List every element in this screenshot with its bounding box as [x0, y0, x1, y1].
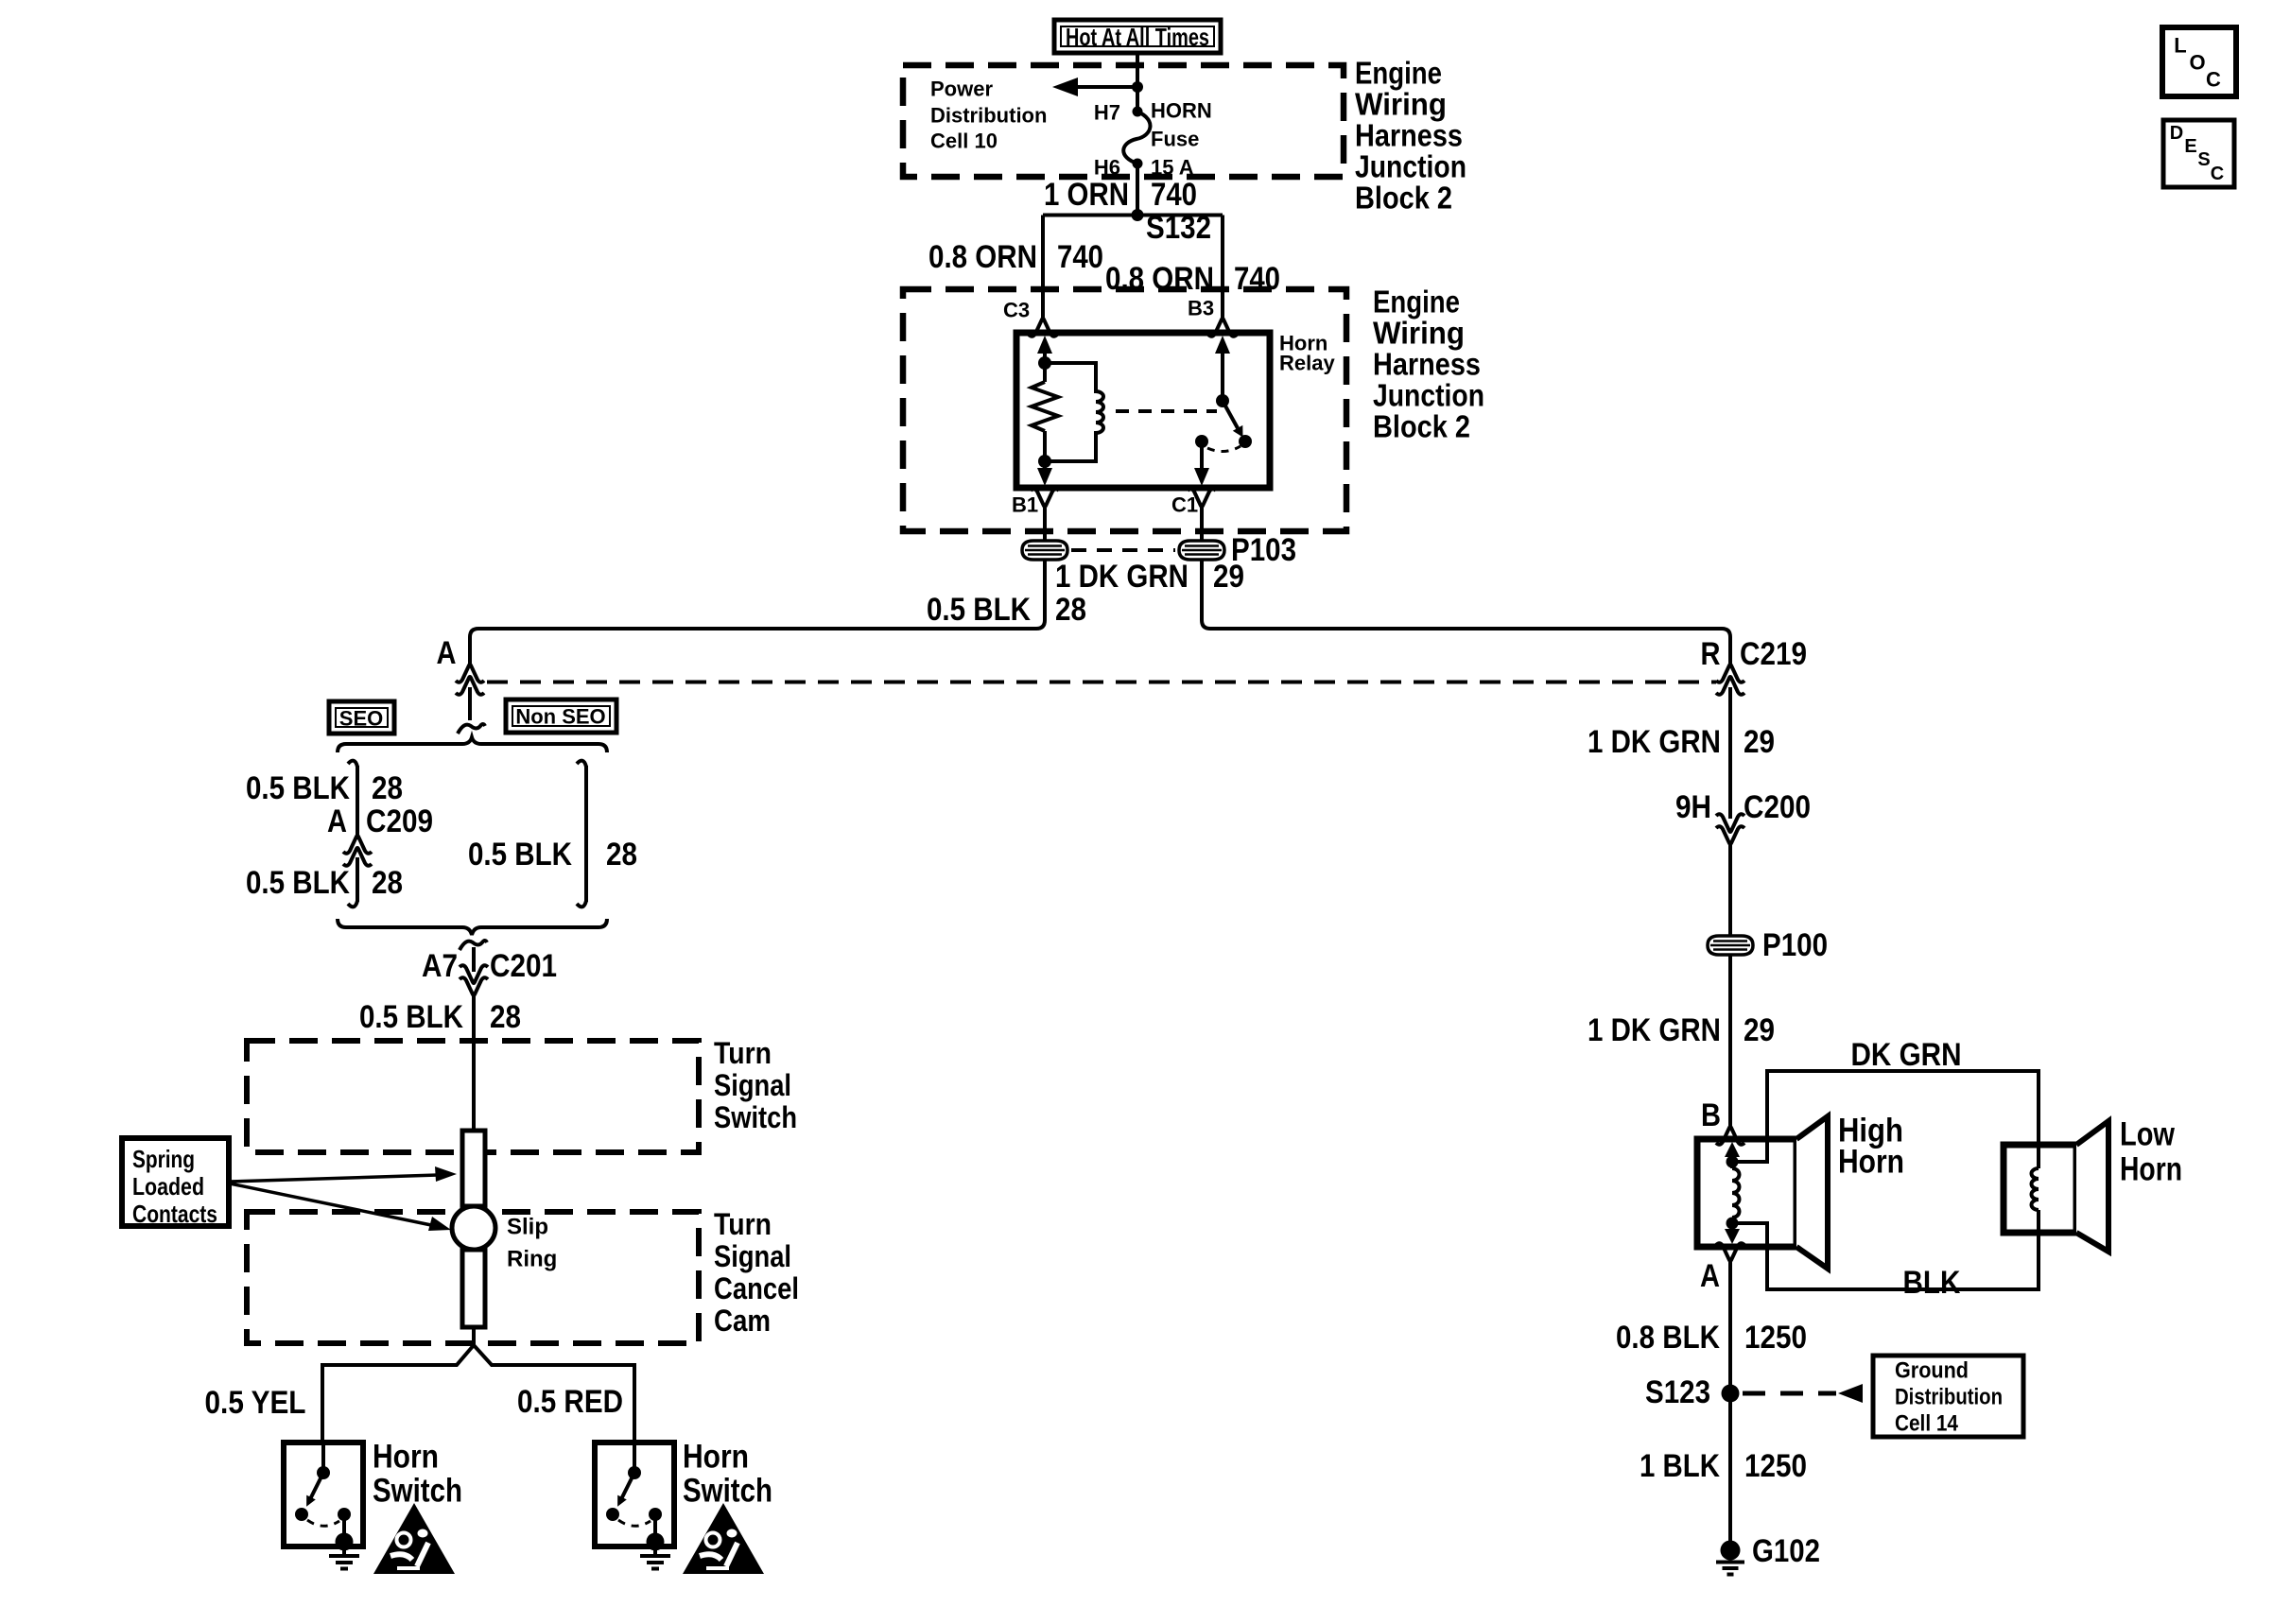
svg-text:C3: C3: [1003, 299, 1030, 322]
high horn pin B: [1701, 1097, 1744, 1145]
label 0.5 BLK 28 (SEO upper): [246, 770, 403, 806]
svg-text:Spring: Spring: [132, 1145, 195, 1173]
svg-text:O: O: [2189, 51, 2205, 75]
dashed wire node A to C219: [487, 681, 1716, 684]
svg-text:28: 28: [606, 837, 637, 872]
svg-text:1 DK GRN: 1 DK GRN: [1588, 1012, 1721, 1048]
SIR caution triangle: [683, 1503, 764, 1574]
svg-text:Cancel: Cancel: [714, 1271, 799, 1305]
svg-text:29: 29: [1744, 724, 1775, 760]
wire node A down to SEO split: [458, 687, 485, 734]
svg-text:A: A: [327, 803, 347, 839]
label 0.5 BLK 28 (SEO lower): [246, 865, 403, 901]
svg-text:L: L: [2174, 34, 2186, 58]
horn relay box: [1016, 332, 1335, 489]
svg-text:1250: 1250: [1744, 1320, 1807, 1356]
svg-text:Non SEO: Non SEO: [515, 705, 605, 729]
horn switch (right) ground: [640, 1550, 670, 1569]
svg-text:G102: G102: [1752, 1533, 1820, 1569]
svg-text:C209: C209: [366, 803, 433, 839]
svg-text:0.5 RED: 0.5 RED: [517, 1384, 623, 1420]
svg-text:0.5 BLK: 0.5 BLK: [246, 770, 350, 806]
LOC legend box: [2162, 27, 2236, 96]
label 0.5 BLK 28 (Non SEO): [468, 837, 637, 872]
relay coil: [1045, 363, 1103, 461]
horn switch (right) contacts: [606, 1443, 665, 1551]
label Engine Wiring Harness Junction Block 2 (lower): [1373, 285, 1484, 444]
svg-text:A7: A7: [422, 948, 458, 984]
pointer arrow to contact bar: [230, 1166, 457, 1182]
svg-text:Ground: Ground: [1895, 1358, 1969, 1384]
svg-text:Switch: Switch: [683, 1473, 772, 1510]
relay resistor arm (pin C3 to B1): [1032, 336, 1058, 486]
dashed box Turn Signal Switch: [247, 1036, 797, 1152]
SIR caution triangle: [373, 1503, 455, 1574]
grommet P100: [1708, 927, 1828, 963]
wire fuse to splice S132: [1136, 164, 1139, 215]
svg-text:29: 29: [1744, 1012, 1775, 1048]
svg-text:740: 740: [1151, 177, 1197, 213]
label 1 DK GRN 29 (lower): [1588, 1012, 1775, 1048]
svg-text:Distribution: Distribution: [930, 104, 1047, 128]
svg-text:Wiring: Wiring: [1373, 316, 1465, 351]
svg-text:DK GRN: DK GRN: [1851, 1037, 1962, 1073]
svg-text:A: A: [1700, 1258, 1720, 1294]
svg-text:R: R: [1701, 636, 1721, 672]
fuse HORN Fuse 15 A with pins H7 H6: [1094, 99, 1212, 180]
svg-text:Ring: Ring: [507, 1247, 557, 1272]
svg-text:SEO: SEO: [339, 707, 383, 731]
svg-text:28: 28: [490, 999, 521, 1035]
svg-text:Horn: Horn: [2120, 1151, 2182, 1188]
wire P100 to high horn pin B: [1728, 955, 1732, 1127]
SEO branch wire with connector C209: [343, 761, 372, 907]
brace merge below SEO branches: [338, 919, 607, 935]
label 0.5 BLK 28: [359, 999, 521, 1035]
wire C201 to turn signal switch: [472, 993, 476, 1131]
connector pin B3: [1188, 297, 1237, 337]
high horn body: [1697, 1113, 1904, 1248]
svg-text:B3: B3: [1188, 297, 1214, 320]
dashed box junction block (power distribution): [903, 65, 1344, 177]
Non SEO flag box: [506, 700, 616, 733]
wire S132 to C3: [1041, 216, 1045, 320]
svg-text:Slip: Slip: [507, 1215, 548, 1240]
svg-text:Junction: Junction: [1373, 378, 1484, 413]
wire S132 to B3: [1221, 216, 1224, 320]
high horn coil: [1725, 1142, 1740, 1244]
dashed box junction block (horn relay): [903, 289, 1346, 531]
node A: [437, 635, 485, 695]
svg-text:Cell 10: Cell 10: [930, 130, 998, 153]
wire DK GRN high horn to low horn: [1732, 1037, 2039, 1168]
label box Spring Loaded Contacts: [122, 1138, 229, 1228]
svg-text:15 A: 15 A: [1151, 156, 1194, 180]
svg-text:1 DK GRN: 1 DK GRN: [1588, 724, 1721, 760]
svg-text:C: C: [2211, 164, 2224, 184]
horn switch (left) contacts: [295, 1443, 354, 1551]
spring loaded contact bar (lower): [462, 1250, 485, 1327]
svg-text:HORN: HORN: [1151, 99, 1212, 123]
svg-text:1 BLK: 1 BLK: [1640, 1448, 1720, 1484]
wire slip ring to Y split: [472, 1327, 476, 1345]
svg-text:Relay: Relay: [1279, 352, 1335, 375]
label 1 DK GRN 29: [1055, 559, 1244, 595]
svg-text:0.8 ORN: 0.8 ORN: [928, 239, 1037, 275]
svg-text:Switch: Switch: [373, 1473, 462, 1510]
connector pin B1: [1012, 489, 1059, 541]
svg-text:Fuse: Fuse: [1151, 128, 1199, 151]
connector C209 pin A labels: [327, 803, 433, 839]
svg-text:H6: H6: [1094, 156, 1120, 180]
svg-text:D: D: [2170, 123, 2183, 144]
svg-text:C200: C200: [1744, 789, 1811, 825]
svg-text:Loaded: Loaded: [132, 1172, 204, 1201]
slip ring: [452, 1206, 557, 1272]
svg-text:1250: 1250: [1744, 1448, 1807, 1484]
ground G102: [1716, 1533, 1820, 1575]
svg-text:9H: 9H: [1675, 789, 1711, 825]
connector pin C3: [1003, 299, 1057, 337]
label 1 ORN 740: [1044, 177, 1197, 213]
label 0.8 BLK 1250: [1616, 1320, 1807, 1356]
svg-text:C219: C219: [1740, 636, 1807, 672]
power source label box "Hot At All Times": [1054, 20, 1221, 53]
dashed box Turn Signal Cancel Cam: [247, 1207, 799, 1343]
low horn cone: [2076, 1121, 2108, 1252]
svg-text:H7: H7: [1094, 101, 1120, 125]
horn switch (left) box: [284, 1439, 462, 1547]
svg-text:C: C: [2206, 68, 2221, 92]
low horn coil: [2032, 1168, 2039, 1210]
svg-text:Block 2: Block 2: [1355, 181, 1452, 216]
connector C200 pin 9H: [1675, 789, 1811, 844]
grommet P103 (left half): [1022, 541, 1067, 560]
svg-text:Cell 14: Cell 14: [1895, 1411, 1959, 1437]
svg-text:C201: C201: [490, 948, 557, 984]
SEO flag box: [329, 701, 394, 734]
svg-text:BLK: BLK: [1903, 1265, 1961, 1301]
svg-text:Distribution: Distribution: [1895, 1385, 2003, 1410]
svg-text:S: S: [2197, 149, 2210, 170]
label 0.8 ORN 740 (right): [1105, 261, 1280, 297]
svg-text:B1: B1: [1012, 493, 1038, 517]
svg-text:Contacts: Contacts: [132, 1200, 217, 1228]
wire BLK high horn to low horn: [1732, 1210, 2039, 1301]
svg-text:0.5 YEL: 0.5 YEL: [205, 1385, 306, 1421]
svg-text:Turn: Turn: [714, 1036, 772, 1070]
label 0.8 ORN 740 (left): [928, 239, 1103, 275]
svg-text:Turn: Turn: [714, 1207, 772, 1241]
label 1 BLK 1250: [1640, 1448, 1807, 1484]
svg-text:1 ORN: 1 ORN: [1044, 177, 1129, 213]
wire Hot At All Times to fuse H7: [1136, 53, 1139, 112]
wire pin A to G102: [1728, 1262, 1732, 1548]
wire C200 to P100: [1728, 841, 1732, 936]
reference arrow to Power Distribution Cell 10: [1052, 78, 1143, 96]
wire B1 bus to node A: [470, 560, 1045, 665]
svg-text:740: 740: [1057, 239, 1103, 275]
low horn body: [2004, 1116, 2182, 1234]
svg-text:28: 28: [1055, 592, 1086, 628]
svg-text:Low: Low: [2120, 1116, 2176, 1153]
svg-text:Harness: Harness: [1373, 347, 1481, 382]
wire Y split to horn switches: [322, 1345, 634, 1443]
horn switch (left) ground: [329, 1550, 359, 1569]
wire C219 to C200: [1728, 687, 1732, 819]
high horn cone: [1796, 1116, 1828, 1269]
svg-text:Switch: Switch: [714, 1100, 797, 1134]
label Engine Wiring Harness Junction Block 2 (upper): [1355, 56, 1466, 216]
connector C219 pin R: [1701, 636, 1808, 695]
svg-text:P100: P100: [1762, 927, 1828, 963]
svg-text:S132: S132: [1146, 210, 1211, 246]
svg-text:Power: Power: [930, 78, 993, 101]
horn switch (right) box: [595, 1439, 772, 1547]
pointer arrow to slip ring: [230, 1183, 451, 1231]
svg-text:Signal: Signal: [714, 1068, 791, 1102]
svg-text:1 DK GRN: 1 DK GRN: [1055, 559, 1189, 595]
svg-text:Block 2: Block 2: [1373, 409, 1470, 444]
splice S132: [1043, 209, 1223, 246]
svg-text:29: 29: [1213, 559, 1244, 595]
label 0.5 BLK 28: [927, 592, 1086, 628]
svg-text:0.8 BLK: 0.8 BLK: [1616, 1320, 1720, 1356]
label 1 DK GRN 29 (upper): [1588, 724, 1775, 760]
svg-text:Horn: Horn: [373, 1439, 439, 1476]
relay actuation dashed link: [1116, 409, 1217, 413]
svg-text:B: B: [1701, 1097, 1721, 1133]
connector pin C1: [1171, 489, 1216, 541]
svg-text:Junction: Junction: [1355, 149, 1466, 184]
svg-text:Hot At All Times: Hot At All Times: [1066, 23, 1209, 51]
splice S123: [1645, 1374, 1863, 1410]
label Power Distribution Cell 10: [930, 78, 1047, 153]
label box Ground Distribution Cell 14: [1873, 1356, 2023, 1437]
svg-text:Engine: Engine: [1355, 56, 1442, 91]
connector C201 pin A7: [422, 941, 557, 995]
svg-text:28: 28: [372, 865, 403, 901]
svg-text:S123: S123: [1645, 1374, 1710, 1410]
svg-text:Horn: Horn: [1838, 1144, 1904, 1181]
relay switch arm (pin B3 to C1): [1194, 336, 1252, 486]
svg-text:0.5 BLK: 0.5 BLK: [468, 837, 572, 872]
svg-text:0.5 BLK: 0.5 BLK: [927, 592, 1031, 628]
svg-text:E: E: [2184, 136, 2196, 157]
svg-text:0.5 BLK: 0.5 BLK: [246, 865, 350, 901]
svg-text:Engine: Engine: [1373, 285, 1460, 320]
DESC legend box: [2163, 120, 2234, 187]
spring loaded contact bar (upper): [462, 1131, 485, 1206]
svg-text:Signal: Signal: [714, 1239, 791, 1273]
svg-text:Wiring: Wiring: [1355, 87, 1447, 122]
svg-text:0.5 BLK: 0.5 BLK: [359, 999, 463, 1035]
svg-text:28: 28: [372, 770, 403, 806]
svg-text:Horn: Horn: [683, 1439, 749, 1476]
svg-text:Cam: Cam: [714, 1304, 771, 1338]
svg-text:Harness: Harness: [1355, 118, 1463, 153]
svg-text:A: A: [437, 635, 457, 671]
Non SEO branch wire: [577, 761, 586, 907]
wire C1 bus to connector C219: [1202, 560, 1730, 665]
svg-text:C1: C1: [1171, 493, 1198, 517]
grommet P103 (right half): [1071, 532, 1296, 568]
high horn pin A: [1700, 1243, 1744, 1294]
brace split to SEO / Non SEO branches: [338, 737, 607, 752]
